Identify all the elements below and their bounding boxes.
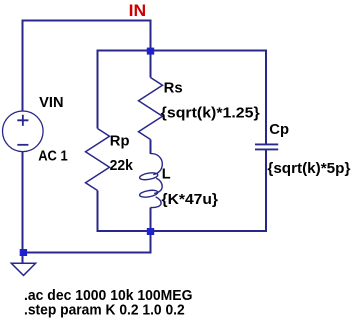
svg-text:Rs: Rs (164, 80, 183, 96)
svg-text:.step param K 0.2 1.0 0.2: .step param K 0.2 1.0 0.2 (24, 302, 185, 318)
svg-text:{sqrt(k)*5p}: {sqrt(k)*5p} (267, 161, 350, 177)
svg-text:{K*47u}: {K*47u} (162, 192, 219, 208)
svg-text:Rp: Rp (110, 133, 130, 149)
svg-text:22k: 22k (110, 158, 134, 174)
svg-text:IN: IN (129, 2, 147, 20)
svg-text:L: L (162, 166, 171, 182)
svg-text:Cp: Cp (269, 122, 289, 138)
svg-text:VIN: VIN (39, 95, 63, 111)
svg-text:AC 1: AC 1 (38, 148, 67, 164)
svg-text:{sqrt(k)*1.25}: {sqrt(k)*1.25} (161, 106, 260, 122)
